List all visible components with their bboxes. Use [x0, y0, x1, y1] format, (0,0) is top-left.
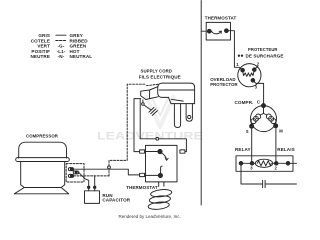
compressor lower body	[21, 162, 65, 188]
motor winding left	[251, 113, 263, 124]
connector node circle	[108, 166, 111, 169]
thermostat center box	[146, 145, 178, 182]
relay coil zigzag	[257, 161, 271, 166]
terminal T1	[68, 168, 73, 171]
plug body	[158, 83, 195, 104]
motor terminal labels	[246, 129, 283, 134]
wire grey from plug down to thermostat top	[134, 99, 141, 152]
compressor body dome	[19, 142, 67, 158]
overload protector label	[210, 77, 238, 87]
thermostat top right dot	[225, 29, 229, 33]
ground wire diagonal	[144, 105, 151, 110]
run capacitor box	[85, 191, 100, 204]
terminal T1 dot	[70, 168, 72, 170]
svg-text:SUPPLY CORD: SUPPLY CORD	[141, 69, 173, 74]
ground connector circle	[142, 103, 145, 106]
svg-text:RELAIS: RELAIS	[277, 147, 294, 152]
legend row COTELE/RIBBED	[31, 38, 89, 43]
thermostat bottom terminal dot	[158, 173, 162, 177]
svg-text:GREY: GREY	[70, 33, 83, 38]
switch arrowhead	[165, 158, 168, 160]
wire into top dot	[145, 151, 160, 153]
svg-text:COMPR.: COMPR.	[235, 100, 254, 105]
terminal T3	[68, 174, 73, 177]
relay box	[236, 156, 293, 172]
overload terminal 2 dot	[253, 68, 257, 72]
legend row POSITIF/HOT	[31, 49, 79, 54]
svg-text:PROTECTEUR: PROTECTEUR	[248, 47, 278, 52]
motor winding right	[264, 113, 276, 124]
switch lower stub	[161, 166, 163, 173]
overload protector circle	[238, 64, 261, 87]
svg-text:3: 3	[250, 165, 253, 170]
wire loop continues	[159, 139, 187, 152]
coil spring	[148, 189, 172, 211]
svg-text:M: M	[279, 129, 283, 134]
thermostat right connector	[180, 150, 185, 153]
overload resistor	[243, 71, 254, 76]
plug head detail line	[171, 99, 183, 101]
plug prong left	[174, 104, 180, 128]
cord taper	[150, 87, 158, 99]
svg-text:-G-: -G-	[58, 44, 65, 49]
plug prong hole	[188, 115, 191, 118]
run capacitor label	[102, 193, 130, 203]
inline connector circle	[156, 137, 159, 140]
thermostat top left dot	[207, 29, 211, 33]
svg-text:C: C	[257, 100, 261, 105]
legend row GRIS/GREY	[38, 33, 83, 38]
run capacitor stems	[89, 189, 95, 191]
svg-text:-N-: -N-	[58, 54, 65, 59]
protecteur labels	[246, 47, 284, 58]
relay pin labels	[250, 165, 277, 170]
overload pin labels	[236, 62, 259, 90]
bullet dots	[238, 55, 240, 57]
compressor base	[14, 188, 68, 194]
plug head	[169, 97, 195, 103]
legend row VERT/GREEN	[37, 44, 87, 49]
svg-text:2: 2	[275, 165, 278, 170]
wire T2 to run capacitor	[79, 172, 89, 186]
wire dashed ribbed from T3	[74, 175, 109, 177]
thermostat top box	[206, 22, 230, 40]
thermostat top terminal dot	[158, 149, 162, 153]
svg-text:CAPACITOR: CAPACITOR	[102, 198, 130, 203]
svg-text:GRIS: GRIS	[38, 33, 50, 38]
svg-text:NEUTRE: NEUTRE	[31, 54, 51, 59]
wire dashed stub below node	[108, 169, 110, 176]
plug prong right	[186, 104, 192, 122]
svg-text:PROTECTOR: PROTECTOR	[210, 82, 238, 87]
wire dashed riser to plug	[109, 84, 145, 166]
motor circle	[251, 106, 277, 132]
svg-text:Rendered by LeadVenture, Inc.: Rendered by LeadVenture, Inc.	[119, 214, 181, 219]
wire to main line	[201, 30, 206, 32]
relay main wire	[241, 162, 297, 164]
wire to run capacitor right	[94, 176, 96, 186]
svg-text:S: S	[246, 129, 249, 134]
svg-text:POSITIF: POSITIF	[31, 49, 50, 54]
svg-text:FILS ELECTRIQUE: FILS ELECTRIQUE	[139, 75, 181, 80]
wire loop plug to thermostat right	[140, 100, 156, 139]
svg-text:COMPRESSOR: COMPRESSOR	[26, 133, 59, 138]
svg-text:LEADVENTURE: LEADVENTURE	[97, 131, 203, 143]
thermostat switch arm	[160, 152, 166, 160]
run capacitor terminal dots	[88, 186, 90, 188]
compressor flange	[16, 158, 70, 162]
overload terminal 2 stub	[255, 66, 258, 69]
thermostat top switch arrow	[212, 31, 222, 34]
thermostat left bottom connector	[140, 173, 145, 176]
motor C dot	[262, 104, 266, 108]
terminal T3 dot	[70, 175, 72, 177]
motor stem	[263, 108, 265, 114]
terminal block dashed box	[66, 164, 84, 182]
svg-text:-L1-: -L1-	[57, 49, 66, 54]
svg-text:RIBBED: RIBBED	[70, 38, 89, 43]
svg-text:THERMOSTAT: THERMOSTAT	[205, 16, 237, 21]
capacitor plates	[263, 180, 266, 187]
relay coil oval	[255, 159, 272, 167]
svg-text:THERMOSTAT: THERMOSTAT	[126, 185, 158, 190]
compr label	[235, 100, 261, 105]
svg-text:RELAY: RELAY	[235, 147, 251, 152]
svg-text:1: 1	[236, 62, 239, 67]
legend row NEUTRE/NEUTRAL	[31, 54, 93, 59]
wire grey from T1 to thermostat bottom	[74, 169, 140, 175]
svg-text:COTELE: COTELE	[31, 38, 50, 43]
svg-text:GREEN: GREEN	[70, 44, 87, 49]
motor S dot	[250, 124, 254, 128]
cord strain relief	[141, 90, 150, 100]
motor M dot	[274, 124, 278, 128]
wire relay to capacitor	[241, 165, 262, 184]
wire thermostat to overload	[228, 31, 242, 70]
wire into bottom dot	[145, 174, 161, 176]
overload terminal 3 dot	[251, 79, 255, 83]
thermostat left top connector	[140, 150, 145, 153]
ground chevrons	[149, 107, 158, 115]
wire M to relay	[275, 128, 277, 164]
wire S to relay	[251, 128, 253, 163]
terminal T2	[73, 171, 78, 174]
capacitor wire right	[266, 183, 297, 185]
overload terminal 1 dot	[241, 68, 245, 72]
svg-text:VERT: VERT	[37, 44, 50, 49]
svg-text:NEUTRAL: NEUTRAL	[70, 54, 93, 59]
wire overload to compressor C	[254, 81, 264, 103]
coil stems	[159, 182, 164, 187]
ground wire stub	[142, 100, 144, 103]
watermark logo V	[147, 97, 174, 127]
main vertical line	[200, 1, 202, 206]
terminal T2 dot	[75, 171, 77, 173]
plug body mold line	[159, 89, 194, 91]
wire dashed along cord	[146, 84, 158, 85]
svg-text:3: 3	[255, 84, 258, 89]
svg-text:HOT: HOT	[70, 49, 80, 54]
relay dots	[239, 162, 243, 166]
svg-text:2: 2	[257, 62, 260, 67]
supply cord label	[139, 69, 181, 80]
relay labels	[235, 147, 295, 152]
svg-text:DE SURCHARGE: DE SURCHARGE	[246, 53, 284, 58]
